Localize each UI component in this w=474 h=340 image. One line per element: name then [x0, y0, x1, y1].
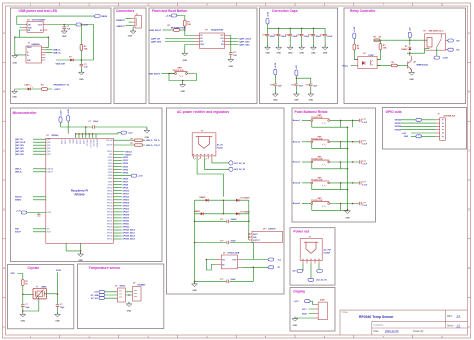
- resistor R6: [379, 44, 382, 50]
- svg-text:USB_BOOT: USB_BOOT: [149, 73, 161, 75]
- wire resistor to base: [397, 65, 407, 67]
- svg-text:Y?: Y?: [36, 286, 38, 288]
- svg-text:GND: GND: [128, 35, 133, 37]
- section box: AC power rectifier and regulators: [167, 108, 285, 294]
- svg-text:XIN?: XIN?: [15, 229, 19, 231]
- connector J2 pins: [131, 19, 135, 26]
- capacitor C right: [56, 305, 60, 307]
- wire GPIO5: [113, 172, 122, 174]
- junctions on rail: [278, 28, 280, 30]
- wire flags down: [61, 121, 69, 134]
- svg-text:C: C: [3, 150, 5, 153]
- resistor R1: [80, 44, 83, 50]
- svg-text:GPIO24: GPIO24: [107, 230, 113, 232]
- svg-text:GPIO8: GPIO8: [108, 181, 113, 183]
- svg-text:GPIO28_ADC2: GPIO28_ADC2: [123, 235, 135, 238]
- svg-text:USB_D-: USB_D-: [15, 169, 22, 171]
- svg-text:GPIO3: GPIO3: [123, 166, 129, 168]
- svg-text:SHT30: SHT30: [120, 286, 126, 288]
- svg-text:QSPI: QSPI: [47, 154, 51, 156]
- svg-text:QSPI_SS: QSPI_SS: [151, 38, 161, 40]
- wire GPIO18: [113, 214, 122, 216]
- section box: Connectors: [114, 8, 146, 104]
- svg-text:GPIO16: GPIO16: [107, 205, 113, 207]
- svg-text:Correction Caps: Correction Caps: [272, 9, 298, 13]
- svg-text:D+: D+: [27, 55, 29, 57]
- diode D5: [236, 199, 239, 202]
- svg-text:GND: GND: [265, 53, 270, 55]
- svg-text:3v3: 3v3: [278, 259, 281, 261]
- svg-text:D: D: [3, 208, 5, 211]
- svg-text:GPIO22: GPIO22: [107, 224, 113, 226]
- svg-text:TS-1101-C-W: TS-1101-C-W: [311, 200, 322, 202]
- wire rail y53: [407, 53, 425, 56]
- svg-text:USB4105: USB4105: [32, 43, 40, 46]
- svg-text:Relay Controller: Relay Controller: [350, 9, 376, 13]
- svg-text:GPIO12: GPIO12: [123, 197, 130, 199]
- wire flash right nets: [230, 36, 239, 45]
- ground: [294, 92, 300, 97]
- section box: Temperature sensor: [78, 264, 164, 329]
- wire led row: [15, 88, 53, 90]
- wire gpio29: [401, 129, 436, 131]
- svg-text:100uF: 100uF: [231, 240, 237, 242]
- wire ADC_VREF pin: [113, 175, 131, 177]
- USB_DM DP resistors right: [113, 140, 145, 145]
- svg-text:QSPI_SS: QSPI_SS: [15, 139, 23, 141]
- svg-text:QSPI: QSPI: [47, 139, 51, 141]
- svg-text:C?18: C?18: [305, 84, 309, 86]
- button SW1: [175, 70, 188, 72]
- ground buttons: [345, 209, 351, 214]
- svg-text:+5V: +5V: [296, 65, 298, 69]
- QSPI left pins: [33, 139, 46, 154]
- regulator U7 3v3: [221, 255, 237, 269]
- svg-text:1/1: 1/1: [457, 323, 461, 327]
- cap branch 5: [308, 28, 322, 54]
- svg-text:GPIO20: GPIO20: [107, 218, 113, 220]
- wire GPIO12: [113, 196, 122, 198]
- wire GPIO7: [113, 181, 122, 183]
- wires scl sda: [309, 309, 315, 314]
- ground led: [12, 89, 18, 94]
- svg-text:VREG_OUT: VREG_OUT: [89, 139, 91, 147]
- svg-text:QSPI: QSPI: [47, 148, 51, 150]
- svg-text:GND: GND: [311, 53, 316, 55]
- diode D1: [70, 59, 73, 62]
- svg-text:AC_OUT: AC_OUT: [324, 248, 333, 251]
- svg-text:TLV70233DBV: TLV70233DBV: [32, 20, 47, 22]
- svg-text:GPIO0: GPIO0: [123, 157, 129, 159]
- svg-text:R?: R?: [131, 138, 133, 140]
- transformer T2: [300, 239, 322, 261]
- svg-text:TS-1101-C-W: TS-1101-C-W: [311, 159, 322, 161]
- wire cap drop 2: [80, 60, 82, 72]
- svg-text:GPIO17: GPIO17: [107, 208, 113, 210]
- svg-text:GND: GND: [78, 260, 83, 262]
- capacitor C top: [93, 125, 95, 128]
- wire GPIO26_ADC0: [113, 229, 122, 231]
- svg-text:QSPI_SD0: QSPI_SD0: [239, 41, 250, 43]
- flash chip U3: [200, 33, 225, 49]
- wire gnd: [411, 135, 436, 137]
- svg-text:C?12: C?12: [285, 35, 289, 37]
- flyback diode D3: [409, 40, 411, 53]
- svg-text:USB_DM: USB_DM: [106, 140, 113, 142]
- svg-text:C?14: C?14: [308, 34, 312, 37]
- svg-text:GND5V?: GND5V?: [116, 26, 125, 28]
- junction: [409, 39, 411, 41]
- junction: [409, 52, 411, 54]
- svg-text:Date:: Date:: [374, 330, 380, 333]
- svg-text:AC1_AC_IN: AC1_AC_IN: [234, 162, 245, 165]
- svg-text:GPIO18: GPIO18: [123, 215, 130, 217]
- svg-text:+3.3V: +3.3V: [354, 26, 356, 32]
- wire GPIO27_ADC1: [113, 232, 122, 234]
- cap branch 3: [285, 28, 299, 54]
- svg-text:GPIO27: GPIO27: [107, 239, 113, 241]
- svg-text:+3.3V: +3.3V: [138, 175, 144, 177]
- svg-text:GPIO2: GPIO2: [123, 163, 129, 165]
- wire test led row: [56, 59, 94, 61]
- flag NC: [448, 48, 454, 51]
- svg-text:NO: NO: [457, 40, 461, 42]
- bridge row 2: [195, 200, 249, 221]
- svg-text:QSPI: QSPI: [47, 151, 51, 153]
- svg-text:GPIO29: GPIO29: [395, 130, 402, 132]
- svg-text:IO3: IO3: [221, 44, 224, 46]
- svg-text:USB_D+: USB_D+: [53, 52, 62, 54]
- wire flag to resistor: [177, 16, 185, 21]
- ground: [308, 92, 314, 97]
- svg-text:SWCLK: SWCLK: [107, 151, 112, 153]
- svg-text:GPIO22: GPIO22: [123, 227, 130, 229]
- svg-text:L7805CP: L7805CP: [268, 228, 276, 230]
- svg-text:SCL?: SCL?: [302, 309, 307, 311]
- wire r6 top to rail: [379, 40, 381, 43]
- svg-text:GPIO15: GPIO15: [123, 206, 130, 208]
- wire vdd rail: [76, 133, 121, 134]
- junction: [63, 24, 65, 26]
- power flag ADC_VREF +3.3V: [131, 174, 137, 177]
- svg-text:+3.3V: +3.3V: [60, 110, 62, 116]
- flag 5v out: [268, 266, 274, 269]
- svg-text:C?1: C?1: [220, 219, 223, 221]
- svg-text:GPIO3: GPIO3: [108, 166, 113, 168]
- svg-text:I2C_SCL: I2C_SCL: [91, 298, 99, 300]
- ground right: [55, 312, 61, 317]
- svg-text:+1.1V: +1.1V: [16, 210, 22, 212]
- capacitor C1: [62, 27, 66, 29]
- svg-text:Button1: Button1: [293, 119, 300, 122]
- svg-text:+3.3V: +3.3V: [166, 15, 172, 17]
- svg-text:GPIO25: GPIO25: [107, 233, 113, 235]
- svg-text:AC_IN: AC_IN: [217, 143, 223, 146]
- ground display: [292, 317, 298, 322]
- svg-text:GPIO27_ADC1: GPIO27_ADC1: [123, 232, 135, 235]
- svg-text:USB_DP: USB_DP: [47, 171, 53, 173]
- cap row 3: [195, 280, 254, 282]
- section box: Crystal: [8, 265, 74, 329]
- svg-text:GPIO27: GPIO27: [395, 123, 402, 125]
- svg-text:GPIO5: GPIO5: [108, 172, 113, 174]
- wire resistor to node: [179, 29, 184, 31]
- wire gpio28: [401, 125, 436, 127]
- svg-text:GPIO11: GPIO11: [123, 193, 129, 195]
- section box: Display: [290, 288, 335, 332]
- svg-text:GND: GND: [21, 321, 26, 323]
- svg-text:GPIO4: GPIO4: [123, 168, 129, 171]
- svg-text:100nF: 100nF: [93, 121, 99, 123]
- transformer pins: [303, 261, 319, 264]
- push button row 5: [293, 198, 368, 211]
- ac net circles: [229, 161, 233, 165]
- wire button loop: [169, 74, 196, 85]
- svg-text:USB_D+_TVS_D: USB_D+_TVS_D: [146, 145, 161, 147]
- wire GPIO0: [113, 157, 122, 159]
- ground temp: [126, 302, 132, 307]
- svg-text:QSPI_SD2: QSPI_SD2: [15, 151, 24, 153]
- wire GPIO4: [113, 169, 122, 171]
- resistor R4: [173, 29, 179, 32]
- sensor U8: [118, 288, 126, 302]
- svg-text:+3.3V: +3.3V: [275, 62, 277, 68]
- connector pins: [315, 305, 319, 319]
- regulator pins: [249, 234, 252, 240]
- svg-text:C??: C??: [220, 240, 224, 242]
- u7 pins: [216, 260, 242, 268]
- power flag +3.3V: [76, 23, 82, 26]
- push button row 2: [293, 136, 368, 149]
- wire label to resistor: [163, 29, 174, 31]
- svg-text:+3.3V: +3.3V: [294, 301, 300, 303]
- svg-text:GND: GND: [404, 136, 409, 138]
- svg-text:Relay: Relay: [342, 65, 348, 67]
- wire gnd: [295, 317, 315, 319]
- wire left rail: [194, 200, 196, 281]
- wire GPIO11: [113, 193, 122, 195]
- wire vcc cap: [230, 36, 232, 59]
- connector ovals: [99, 290, 105, 293]
- svg-text:GND: GND: [12, 97, 17, 99]
- svg-text:AC?: AC?: [292, 270, 296, 273]
- svg-text:XIN: XIN: [47, 228, 50, 230]
- wire gpio27: [401, 122, 436, 124]
- svg-text:C?15: C?15: [320, 35, 324, 37]
- section box: Relay Controller: [344, 8, 466, 104]
- svg-text:GPIO13: GPIO13: [123, 200, 130, 202]
- svg-text:+3.3V: +3.3V: [94, 292, 100, 294]
- power flag +5V relay: [408, 32, 411, 38]
- power flag +3.3V right: [121, 131, 127, 134]
- wire usb data: [45, 50, 52, 53]
- wire GPIO13: [113, 199, 122, 201]
- svg-text:GND: GND: [293, 325, 298, 327]
- title block outline: [340, 310, 468, 335]
- svg-text:VBUS_DET: VBUS_DET: [56, 63, 66, 65]
- svg-text:MMBT2222A: MMBT2222A: [417, 63, 429, 66]
- svg-text:GND: GND: [409, 79, 414, 81]
- cap branch 4: [296, 28, 310, 54]
- cap row 2: [195, 243, 254, 260]
- junction: [184, 29, 186, 31]
- svg-text:GPIO10: GPIO10: [107, 187, 113, 189]
- SWD left pins: [33, 197, 46, 200]
- svg-text:C??: C??: [362, 202, 366, 204]
- optocoupler U4: [358, 57, 377, 69]
- svg-text:C??: C??: [362, 161, 366, 163]
- wire u7 input: [206, 260, 216, 271]
- wire GPIO6: [113, 178, 122, 180]
- svg-text:GND: GND: [309, 100, 314, 102]
- svg-text:GPIO13: GPIO13: [107, 196, 113, 198]
- wire 3v3: [411, 132, 436, 134]
- svg-text:USB_DM: USB_DM: [47, 168, 54, 170]
- opto pins: [354, 60, 381, 66]
- wire 1v1: [27, 212, 46, 214]
- svg-text:GPIO16: GPIO16: [123, 209, 130, 211]
- svg-text:C: C: [468, 150, 470, 153]
- connector pins: [436, 120, 440, 137]
- svg-text:RP2040: RP2040: [74, 193, 85, 197]
- svg-text:GPIO21: GPIO21: [123, 224, 130, 226]
- svg-text:+3.3V: +3.3V: [68, 109, 70, 115]
- svg-text:TS-1101-C-W: TS-1101-C-W: [311, 117, 322, 119]
- transformer pins: [193, 156, 212, 159]
- svg-text:C?16: C?16: [270, 84, 274, 86]
- capacitor C2: [80, 64, 84, 66]
- svg-text:C??: C??: [362, 141, 366, 143]
- wire flag down: [409, 38, 411, 40]
- svg-text:GPIO29_ADC3: GPIO29_ADC3: [123, 238, 135, 241]
- svg-text:100uF: 100uF: [231, 279, 237, 281]
- ground top: [144, 128, 150, 133]
- svg-text:USB_D+: USB_D+: [15, 172, 22, 174]
- capacitor C left: [21, 305, 25, 307]
- svg-text:GPIO9: GPIO9: [123, 187, 129, 189]
- wire base: [377, 65, 391, 67]
- section box: USB power and test LED: [11, 8, 112, 104]
- SWD right pins: [113, 152, 124, 155]
- cap branch 6: [320, 28, 334, 54]
- svg-text:TITLE:: TITLE:: [342, 312, 349, 314]
- svg-text:INPUT: INPUT: [253, 234, 258, 236]
- junction: [81, 59, 83, 61]
- section box: Correction Caps: [260, 8, 338, 104]
- svg-text:AC1_AC_IN: AC1_AC_IN: [316, 279, 327, 282]
- svg-text:QSPI_SCLK: QSPI_SCLK: [239, 38, 251, 40]
- resistor R8: [22, 280, 25, 286]
- wire GPIO15: [113, 205, 122, 207]
- svg-text:Button3: Button3: [293, 161, 300, 164]
- svg-text:CE: CE: [200, 35, 202, 37]
- svg-text:GND: GND: [273, 100, 278, 102]
- svg-text:1.0: 1.0: [457, 314, 461, 318]
- svg-text:XOUT: XOUT: [56, 270, 62, 272]
- svg-text:VOUT: VOUT: [232, 259, 236, 261]
- svg-text:GPIO26_ADC0: GPIO26_ADC0: [123, 229, 135, 232]
- svg-text:GND: GND: [276, 53, 281, 55]
- vdd stubs: [76, 127, 96, 138]
- svg-text:XOUT?: XOUT?: [15, 232, 21, 234]
- svg-text:USB_VDD: USB_VDD: [92, 139, 94, 147]
- wire r8 down: [23, 286, 34, 295]
- svg-text:GND: GND: [288, 53, 293, 55]
- junction: [81, 24, 83, 26]
- junction: [48, 36, 50, 38]
- led D2: [28, 88, 31, 91]
- svg-text:GPIO19: GPIO19: [123, 218, 130, 220]
- connector J4: [318, 302, 327, 320]
- wire usb vbus up: [45, 37, 48, 47]
- svg-text:SWCLK: SWCLK: [15, 197, 22, 199]
- svg-text:PWR5V?: PWR5V?: [116, 20, 125, 22]
- USB connector pins: [42, 47, 46, 60]
- svg-text:GPIO20: GPIO20: [123, 221, 130, 223]
- svg-text:100nF: 100nF: [327, 36, 333, 38]
- diode D4: [206, 199, 209, 202]
- svg-text:C?17: C?17: [291, 84, 295, 86]
- net tie oval 2: [317, 269, 323, 272]
- bridge row 1: [195, 200, 249, 221]
- svg-text:GPIO19: GPIO19: [107, 215, 113, 217]
- svg-text:XOUT: XOUT: [47, 231, 51, 233]
- wire lower rail: [296, 76, 310, 94]
- svg-text:+3.3V: +3.3V: [402, 133, 408, 135]
- push button row 3: [293, 157, 368, 170]
- flash pins: [195, 36, 230, 45]
- wire left gnd drop: [15, 37, 26, 55]
- ground cap: [228, 57, 234, 62]
- svg-text:GPIO5: GPIO5: [123, 172, 129, 174]
- wire 3v3 rail: [268, 24, 326, 28]
- connector J2: [135, 16, 142, 28]
- wire cap left: [22, 294, 24, 313]
- svg-text:Microcontroller: Microcontroller: [13, 111, 38, 115]
- svg-text:SuB?: SuB?: [320, 300, 325, 302]
- svg-text:Company:: Company:: [374, 325, 384, 327]
- svg-text:VREG_IN: VREG_IN: [85, 139, 87, 146]
- svg-text:1N4007: 1N4007: [199, 196, 205, 199]
- transformer T1: [192, 133, 216, 156]
- ground left: [20, 312, 26, 317]
- svg-text:+3.3V: +3.3V: [267, 11, 269, 17]
- svg-text:SDA?: SDA?: [302, 312, 307, 315]
- svg-text:GPIO15: GPIO15: [107, 202, 113, 204]
- wires transformer to bridge: [197, 159, 229, 197]
- svg-text:GPIO6: GPIO6: [108, 175, 113, 177]
- wire GPIO29_ADC3: [113, 238, 122, 240]
- svg-text:LED?: LED?: [25, 84, 31, 86]
- svg-text:GND: GND: [145, 137, 150, 139]
- svg-text:RT9013-33GB: RT9013-33GB: [228, 253, 240, 255]
- junction: [80, 250, 82, 252]
- capacitor C 1v1: [37, 215, 40, 217]
- power flag +3.3V vertical: [266, 18, 269, 24]
- wire flash left nets: [165, 39, 195, 53]
- svg-text:+5V: +5V: [410, 27, 412, 31]
- svg-text:GPIO7: GPIO7: [108, 178, 113, 180]
- ground: [61, 29, 67, 34]
- svg-text:Push Buttons/ Relais: Push Buttons/ Relais: [295, 110, 328, 114]
- svg-text:GND: GND: [294, 100, 299, 102]
- svg-text:GND: GND: [183, 60, 188, 62]
- svg-text:SRD-05VDC-SL-C: SRD-05VDC-SL-C: [429, 30, 445, 32]
- svg-text:Sheet:: Sheet:: [447, 324, 454, 327]
- svg-text:I2C_SDA: I2C_SDA: [91, 294, 99, 297]
- ground mcu: [78, 252, 84, 257]
- svg-text:REV:: REV:: [447, 315, 453, 318]
